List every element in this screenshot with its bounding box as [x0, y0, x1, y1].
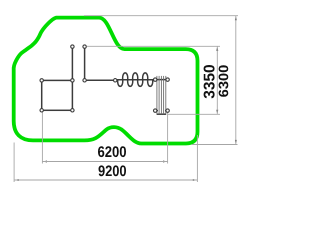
extension line: ladder bottom (3350 bottom): [168, 113, 220, 115]
extension line: zone left (9200 left): [13, 143, 15, 183]
arrow 3350 top: [216, 46, 218, 51]
dimension line 6200: [42, 161, 167, 163]
equipment linework: [42, 47, 168, 115]
node square top-left: [40, 79, 43, 82]
node circles: [40, 45, 169, 112]
coil centre pole: [115, 79, 155, 81]
dimension line 6300: [235, 16, 237, 145]
safety zone outline (green): [14, 18, 198, 144]
node ladder top-left: [154, 78, 157, 81]
post line right: [84, 47, 86, 81]
node ladder bottom-left: [154, 109, 157, 112]
extension line: equipment top nodes (3350 top): [87, 45, 220, 47]
extension line: square left (6200 left): [41, 112, 43, 164]
beam to coil: [85, 79, 116, 81]
post line left: [71, 47, 73, 81]
node post top left: [71, 45, 74, 48]
ladder bottom stubs: [155, 110, 158, 112]
ladder rails: [157, 76, 166, 114]
arrow 6300 bottom: [235, 140, 237, 145]
node square bottom-right: [71, 109, 74, 112]
dimension text 6200: [98, 146, 126, 157]
ladder bottom cap: [157, 113, 167, 115]
dimension line 9200: [14, 179, 197, 181]
arrow 9200 left: [14, 179, 19, 181]
arrow 6300 top: [235, 16, 237, 21]
arrow 6200 right: [163, 161, 168, 163]
node square top-right: [71, 79, 74, 82]
coil / spiral element: [115, 73, 155, 87]
platform square: [42, 80, 73, 110]
extension line: ladder right (6200 right): [167, 112, 169, 164]
node ladder bottom-right: [166, 109, 169, 112]
node coil left: [114, 79, 117, 82]
node post top right: [83, 45, 86, 48]
dimension text 6300 (rotated): [219, 65, 229, 97]
dimension line 3350: [216, 46, 218, 114]
node ladder top-right: [166, 78, 169, 81]
ladder top bar: [155, 79, 167, 81]
dimension text 3350 (rotated): [204, 65, 215, 98]
extension line: safety zone bottom right (6300 bottom): [192, 144, 238, 146]
extension line: zone right (9200 right): [196, 135, 198, 182]
extension line: top of safety zone (6300 top): [84, 15, 238, 17]
arrow 6200 left: [42, 161, 47, 163]
arrow 9200 right: [193, 179, 198, 181]
node beam left: [83, 79, 86, 82]
arrow 3350 bottom: [216, 110, 218, 115]
node square bottom-left: [40, 109, 43, 112]
arrows of dimension lines: [14, 16, 237, 181]
dimension text 9200: [99, 165, 127, 176]
